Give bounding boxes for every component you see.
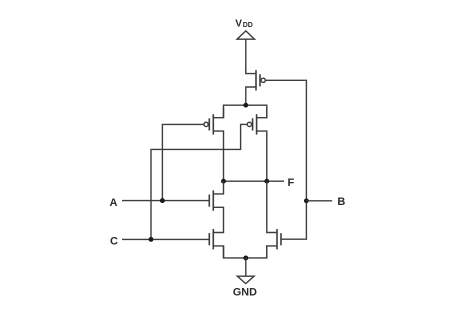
transistor M5 (NMOS, gate C) [209, 220, 223, 258]
wire B vertical [305, 80, 307, 239]
net label F [288, 177, 295, 189]
wire node F rail [224, 180, 285, 182]
transistor M4 (NMOS, gate A) [209, 181, 223, 220]
svg-text:A: A [110, 197, 118, 209]
node C junction [149, 237, 154, 242]
node ground junction [243, 256, 248, 261]
node F left junction [221, 179, 226, 184]
svg-text:V: V [235, 18, 242, 29]
power symbol VDD (supply triangle) [237, 31, 254, 39]
svg-text:GND: GND [233, 287, 257, 299]
svg-text:DD: DD [243, 22, 253, 29]
net label B [337, 196, 345, 208]
wire input B [306, 200, 332, 202]
node F right junction [264, 179, 269, 184]
wire ground rail [224, 246, 267, 258]
node B junction [304, 198, 309, 203]
wire node N1 rail [224, 105, 267, 118]
transistor M1 (PMOS, gate B) [246, 68, 266, 105]
svg-text:B: B [337, 196, 345, 208]
ground symbol (triangle) [237, 276, 254, 283]
svg-text:C: C [110, 236, 118, 248]
net label GND [233, 287, 257, 299]
wire GND stem [245, 258, 247, 276]
net label C [110, 236, 118, 248]
wire VDD stem [245, 39, 247, 71]
transistor M2 (PMOS, gate A) [204, 108, 224, 181]
node A junction [160, 198, 165, 203]
wire input C [122, 238, 209, 240]
svg-text:F: F [288, 177, 295, 189]
wire input A [122, 200, 209, 202]
transistor M6 (NMOS, gate B) [267, 181, 281, 258]
net label A [110, 197, 118, 209]
wire M6 gate stub [281, 238, 305, 240]
wire M1 gate stub [265, 79, 305, 81]
wire M2 gate route to A [162, 124, 204, 200]
transistor M3 (PMOS, gate C) [247, 108, 267, 181]
node N1 junction [243, 103, 248, 108]
wire M3 gate route to C [151, 124, 247, 239]
net label VDD [235, 18, 253, 29]
